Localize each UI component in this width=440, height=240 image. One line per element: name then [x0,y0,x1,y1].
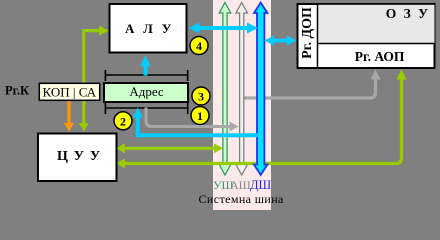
svg-text:Рг. АОП: Рг. АОП [355,49,405,64]
svg-text:Рг.К: Рг.К [5,84,29,98]
svg-text:4: 4 [196,39,202,53]
svg-text:1: 1 [197,109,203,123]
system bus band [213,0,271,210]
node circle 1 [191,107,209,125]
bracket above Адрес [105,70,189,81]
bus arrow УШ (control bus, vertical double arrow) [219,3,231,176]
svg-text:Системна шина: Системна шина [199,192,285,206]
svg-text:А Л У: А Л У [125,21,174,36]
svg-text:ДШ: ДШ [250,178,272,192]
svg-text:Ц У У: Ц У У [57,149,101,164]
wire: gray from Адрес to address bus [146,108,239,132]
bus arrow ДШ (data bus, vertical double arrow) [254,3,268,176]
wire: cyan Адрес up to АЛУ [141,56,151,76]
svg-text:Адрес: Адрес [129,84,164,99]
svg-text:АШ: АШ [230,178,251,192]
wire: green from КОП|СА up to АЛУ (elbow) [79,26,109,132]
svg-text:КОП | СА: КОП | СА [42,85,96,100]
node circle 3 [192,87,210,105]
wire: control bus to ЦУУ (green double horizontal arrow) [116,143,223,153]
wire: orange from КОП|СА down to ЦУУ [64,100,74,132]
svg-text:3: 3 [198,90,204,104]
svg-text:Рг. ДОП: Рг. ДОП [300,7,315,59]
box АЛУ [110,4,187,53]
wire: cyan from data bus to Адрес (up arrow + horizontal) [133,108,259,136]
box ЦУУ [38,134,117,182]
box Адрес [104,83,188,102]
bus arrow АШ (address bus, vertical double arrow) [236,3,248,176]
svg-text:2: 2 [120,114,126,128]
node circle 2 [114,112,132,130]
wire: cyan double arrow АЛУ to data bus [189,23,259,34]
wire: cyan double arrow data bus to ОЗУ [265,36,297,46]
node circle 4 [190,37,208,55]
bracket below Адрес [105,103,189,114]
svg-text:О З У: О З У [386,6,430,21]
box ОЗУ (memory) [298,4,435,68]
wire: memory feedback to ЦУУ (green path right loop) [116,70,407,169]
wire: address bus to memory (gray, under data bus arrow) [240,70,381,99]
box КОП|СА [39,83,99,100]
